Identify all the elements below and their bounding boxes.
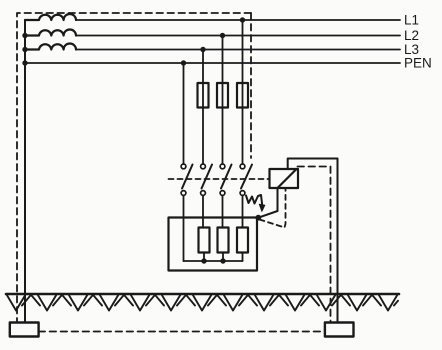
wire R1 to bus <box>203 253 205 262</box>
wire R2 to bus <box>222 253 224 262</box>
dashed earth path right <box>298 167 331 322</box>
wire PEN <box>25 62 400 64</box>
switch pole 1 top contact <box>181 164 186 169</box>
earth electrode of source <box>10 323 39 337</box>
wire PEN drop <box>183 63 185 164</box>
switch pole 2 bottom contact <box>201 191 206 196</box>
switch pole 4 bottom contact <box>240 191 245 196</box>
svg-text:L2: L2 <box>404 28 419 43</box>
node star PEN <box>22 60 27 65</box>
switch pole 4 blade <box>241 165 252 189</box>
ground surface <box>6 293 399 296</box>
wire fuse F2 to switch <box>222 108 224 165</box>
wire switch 2 to resistor R1 <box>202 195 204 227</box>
soil hatching <box>7 295 398 311</box>
svg-text:L1: L1 <box>404 13 419 28</box>
arc fault flashover <box>246 195 265 211</box>
load resistor R2 <box>218 228 229 253</box>
wire L1 <box>76 19 400 21</box>
wire switch 3 to resistor R2 <box>222 195 224 227</box>
node L3 tap <box>200 47 205 52</box>
node R2 bus <box>220 258 225 263</box>
switch pole 1 bottom contact <box>181 191 186 196</box>
wire L1 drop <box>242 20 244 83</box>
fuse F1 <box>198 83 209 108</box>
switch pole 3 blade <box>221 165 232 189</box>
dashed network boundary <box>17 13 251 321</box>
load resistor R1 <box>199 228 210 253</box>
transformer winding L2 <box>25 29 76 35</box>
transformer star-point bus <box>24 20 26 63</box>
earthing conductor of source <box>24 63 26 323</box>
appliance enclosure <box>169 218 258 271</box>
dashed bonding conductor between electrodes <box>39 331 325 333</box>
switch pole 4 top contact <box>240 164 245 169</box>
transformer winding L1 <box>25 14 76 20</box>
wire L2 <box>76 35 400 37</box>
node star L3 <box>22 47 27 52</box>
fuse F3 <box>237 83 248 108</box>
fuse F2 <box>217 83 228 108</box>
transformer winding L3 <box>25 44 76 50</box>
PE conductor to equipment earth electrode <box>288 159 338 323</box>
trip device U (fault relay) <box>270 169 299 188</box>
load resistor R3 <box>237 228 248 253</box>
protective conductor enclosure to trip device <box>258 188 277 218</box>
dashed fault-loop path to trip device <box>260 189 286 228</box>
switch pole 1 blade <box>182 165 193 189</box>
wire fuse F3 to switch <box>242 108 244 165</box>
node star L2 <box>22 33 27 38</box>
switch pole 2 top contact <box>201 164 206 169</box>
earth electrode of equipment <box>325 323 354 337</box>
wire switch 4 to resistor R3 <box>242 195 244 227</box>
wire switch 1 to neutral bus <box>183 195 185 261</box>
node PEN tap <box>181 60 186 65</box>
trip device diagonal <box>278 169 297 188</box>
svg-text:PEN: PEN <box>404 56 432 71</box>
switch pole 3 bottom contact <box>220 191 225 196</box>
node R1 bus <box>201 258 206 263</box>
switch pole 3 top contact <box>220 164 225 169</box>
neutral bus in appliance <box>184 260 243 262</box>
wire R3 to bus <box>242 253 244 262</box>
switch pole 2 blade <box>202 165 213 189</box>
switch linkage (dashed) <box>169 178 270 180</box>
wire L3 <box>76 49 400 51</box>
wire L2 drop <box>222 36 224 84</box>
node L1 tap <box>240 17 245 22</box>
wire fuse F1 to switch <box>202 108 204 165</box>
wire L3 drop <box>202 50 204 84</box>
node PE terminal on enclosure <box>255 215 261 221</box>
node L2 tap <box>220 33 225 38</box>
